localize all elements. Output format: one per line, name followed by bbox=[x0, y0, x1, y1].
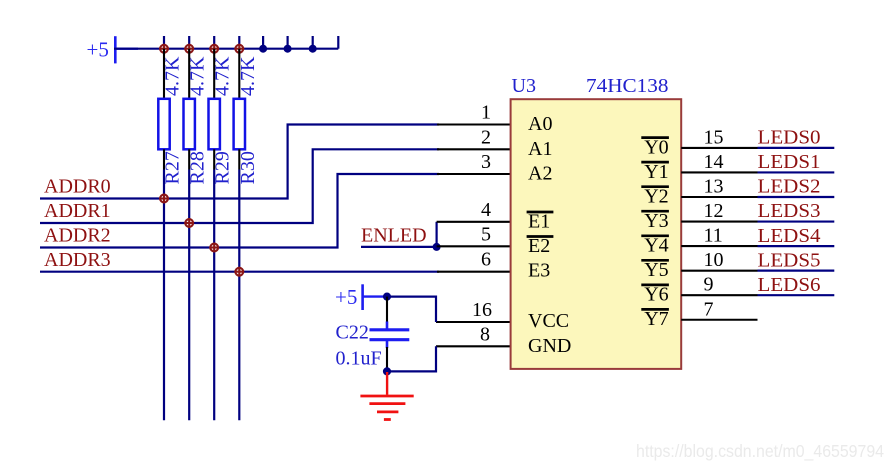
svg-text:LEDS4: LEDS4 bbox=[758, 225, 821, 247]
pin 1 stub bbox=[437, 123, 511, 125]
wire ADDR1 bbox=[40, 149, 439, 223]
svg-text:13: 13 bbox=[704, 176, 724, 198]
junction R27/rail bbox=[159, 44, 169, 54]
wire R29 column bbox=[213, 170, 215, 421]
junction dot rail 2 bbox=[284, 45, 292, 53]
svg-text:U3: U3 bbox=[512, 75, 537, 97]
wire rail stub 3 bbox=[312, 36, 314, 49]
junction dot ENLED bbox=[433, 243, 441, 251]
svg-text:E3: E3 bbox=[528, 260, 550, 282]
svg-text:A0: A0 bbox=[528, 113, 552, 135]
svg-text:4: 4 bbox=[481, 199, 491, 221]
ground bbox=[360, 372, 413, 420]
svg-text:11: 11 bbox=[704, 225, 723, 247]
svg-text:14: 14 bbox=[704, 151, 724, 173]
wire R30 column bbox=[238, 170, 240, 421]
capacitor C22 bbox=[370, 297, 410, 372]
power +5 (top rail) bbox=[87, 36, 139, 63]
junction ADDR1/R28 bbox=[184, 218, 194, 228]
pin 11 stub bbox=[681, 245, 757, 247]
svg-text:A2: A2 bbox=[528, 163, 552, 185]
wire LEDS2 bbox=[758, 196, 835, 198]
svg-text:3: 3 bbox=[481, 151, 491, 173]
junction dot C22/GND bbox=[383, 367, 391, 375]
pin 16 stub bbox=[436, 321, 511, 323]
junction R30/rail bbox=[234, 44, 244, 54]
pin 2 stub bbox=[437, 148, 511, 150]
wire ADDR3 bbox=[40, 271, 439, 273]
pin 3 stub bbox=[437, 173, 511, 175]
junction R29/rail bbox=[209, 44, 219, 54]
svg-text:74HC138: 74HC138 bbox=[586, 75, 669, 97]
resistor R29 bbox=[209, 49, 220, 170]
wire rail stub 2 bbox=[287, 36, 289, 49]
svg-text:4.7K: 4.7K bbox=[212, 56, 234, 96]
wire +5 rail bbox=[114, 48, 338, 50]
wire rail stub R27 bbox=[163, 36, 165, 49]
svg-text:Y4: Y4 bbox=[644, 235, 668, 257]
svg-text:https://blog.csdn.net/m0_46559: https://blog.csdn.net/m0_46559794 bbox=[636, 441, 884, 462]
resistor R27 bbox=[158, 49, 169, 170]
IC U3 74HC138 body bbox=[511, 99, 682, 369]
wire LEDS4 bbox=[758, 245, 835, 247]
svg-text:Y6: Y6 bbox=[644, 284, 668, 306]
resistor R30 bbox=[234, 49, 245, 170]
wire LEDS1 bbox=[758, 171, 835, 173]
svg-text:ADDR0: ADDR0 bbox=[44, 175, 111, 197]
pin 5 stub bbox=[437, 245, 511, 247]
svg-text:ADDR2: ADDR2 bbox=[44, 225, 111, 247]
svg-text:LEDS0: LEDS0 bbox=[758, 127, 821, 149]
junction dot rail 3 bbox=[309, 45, 317, 53]
pin name Y7 (active low) bbox=[641, 308, 669, 330]
pin 6 stub bbox=[437, 271, 511, 273]
svg-text:LEDS3: LEDS3 bbox=[758, 200, 821, 222]
svg-text:15: 15 bbox=[704, 126, 724, 148]
pin 4 stub bbox=[437, 221, 511, 223]
svg-text:12: 12 bbox=[704, 200, 724, 222]
svg-text:4.7K: 4.7K bbox=[187, 56, 209, 96]
pin 15 stub bbox=[681, 147, 757, 149]
svg-text:0.1uF: 0.1uF bbox=[336, 348, 382, 370]
junction dot rail 1 bbox=[259, 45, 267, 53]
svg-text:Y2: Y2 bbox=[644, 186, 668, 208]
wire ENLED bbox=[361, 246, 437, 248]
wire R28 column bbox=[188, 170, 190, 421]
pin name Y4 (active low) bbox=[641, 235, 669, 257]
svg-text:E1: E1 bbox=[528, 210, 550, 232]
wire rail end stub bbox=[337, 36, 339, 49]
svg-text:7: 7 bbox=[704, 298, 714, 320]
svg-text:Y0: Y0 bbox=[644, 136, 668, 158]
svg-text:16: 16 bbox=[472, 299, 492, 321]
svg-text:Y7: Y7 bbox=[644, 308, 668, 330]
svg-text:LEDS5: LEDS5 bbox=[758, 249, 821, 271]
svg-text:+5: +5 bbox=[335, 285, 357, 309]
svg-text:A1: A1 bbox=[528, 138, 552, 160]
wire rail stub R29 bbox=[213, 36, 215, 49]
wire ADDR0 bbox=[40, 125, 439, 199]
pin name Y5 (active low) bbox=[641, 259, 669, 281]
pin name E1 (active low) bbox=[527, 210, 554, 232]
svg-text:9: 9 bbox=[704, 274, 714, 296]
wire LEDS5 bbox=[758, 270, 835, 272]
svg-text:4.7K: 4.7K bbox=[237, 56, 259, 96]
junction dot +5/C22 bbox=[383, 293, 391, 301]
pin 12 stub bbox=[681, 221, 757, 223]
svg-text:LEDS1: LEDS1 bbox=[758, 151, 821, 173]
wire GND to pin 8 bbox=[387, 346, 436, 371]
wire LEDS3 bbox=[758, 220, 835, 222]
pin name Y2 (active low) bbox=[641, 186, 669, 208]
svg-text:Y3: Y3 bbox=[644, 210, 668, 232]
svg-text:10: 10 bbox=[704, 249, 724, 271]
svg-text:LEDS6: LEDS6 bbox=[758, 274, 821, 296]
pin 9 stub bbox=[681, 294, 757, 296]
wire rail stub R28 bbox=[188, 36, 190, 49]
wire rail stub 1 bbox=[262, 36, 264, 49]
junction ADDR0/R27 bbox=[159, 194, 169, 204]
resistor R28 bbox=[184, 49, 195, 170]
svg-text:ENLED: ENLED bbox=[361, 225, 427, 247]
pin 7 stub bbox=[681, 319, 757, 321]
pin 14 stub bbox=[681, 171, 757, 173]
wire +5 to VCC bbox=[387, 297, 436, 322]
svg-text:Y1: Y1 bbox=[644, 161, 668, 183]
pin 8 stub bbox=[436, 345, 511, 347]
svg-text:4.7K: 4.7K bbox=[162, 56, 184, 96]
svg-text:1: 1 bbox=[481, 102, 491, 124]
svg-text:+5: +5 bbox=[87, 38, 109, 62]
wire ENLED to E1 bbox=[436, 222, 438, 247]
svg-text:LEDS2: LEDS2 bbox=[758, 176, 821, 198]
junction R28/rail bbox=[184, 44, 194, 54]
power +5 (VCC) bbox=[335, 284, 387, 310]
wire rail stub R30 bbox=[238, 36, 240, 49]
svg-text:5: 5 bbox=[481, 223, 491, 245]
wire LEDS6 bbox=[758, 294, 835, 296]
svg-text:2: 2 bbox=[481, 126, 491, 148]
junction ADDR3/R30 bbox=[234, 267, 244, 277]
wire ADDR2 bbox=[40, 174, 439, 248]
wire LEDS0 bbox=[758, 147, 835, 149]
svg-text:C22: C22 bbox=[336, 322, 369, 344]
svg-text:GND: GND bbox=[528, 335, 571, 357]
svg-text:ADDR1: ADDR1 bbox=[44, 200, 111, 222]
svg-text:ADDR3: ADDR3 bbox=[44, 249, 111, 271]
svg-text:6: 6 bbox=[481, 249, 491, 271]
junction ADDR2/R29 bbox=[209, 243, 219, 253]
wire R27 column bbox=[163, 170, 165, 421]
svg-text:E2: E2 bbox=[528, 235, 550, 257]
pin name Y1 (active low) bbox=[641, 161, 669, 183]
svg-text:VCC: VCC bbox=[528, 310, 569, 332]
svg-text:Y5: Y5 bbox=[644, 259, 668, 281]
pin 10 stub bbox=[681, 270, 757, 272]
pin name Y0 (active low) bbox=[641, 136, 669, 158]
pin name Y3 (active low) bbox=[641, 210, 669, 232]
pin name Y6 (active low) bbox=[641, 284, 669, 306]
pin name E2 (active low) bbox=[527, 235, 554, 257]
svg-text:8: 8 bbox=[480, 323, 490, 345]
pin 13 stub bbox=[681, 196, 757, 198]
